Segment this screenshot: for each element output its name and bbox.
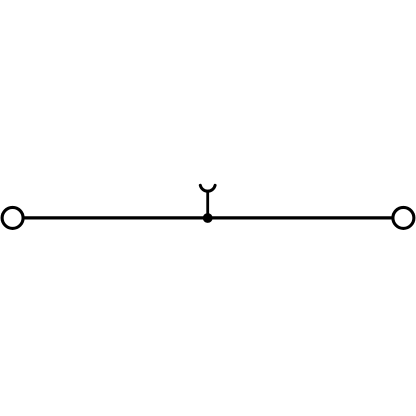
wire stem to test socket bbox=[206, 190, 209, 218]
test socket arc bbox=[200, 185, 215, 191]
wire bbox=[24, 216, 393, 219]
right terminal circle bbox=[393, 207, 414, 228]
node junction dot bbox=[203, 213, 213, 223]
left terminal circle bbox=[2, 207, 23, 228]
